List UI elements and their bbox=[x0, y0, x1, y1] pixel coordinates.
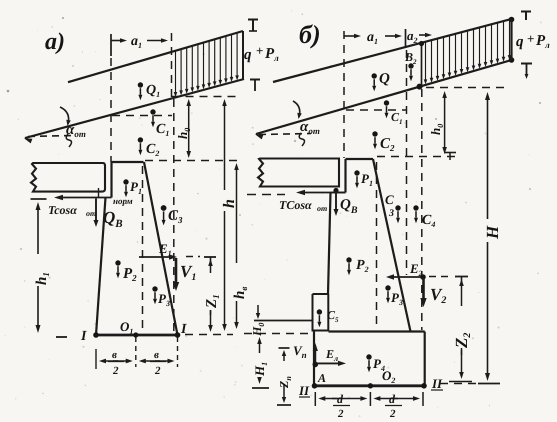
dashed continuation of E1 line (fig a) bbox=[186, 256, 200, 258]
svg-text:от: от bbox=[317, 204, 327, 213]
dimension h1 top tick (fig a) bbox=[31, 198, 47, 200]
svg-text:H: H bbox=[483, 225, 502, 240]
svg-text:2: 2 bbox=[337, 408, 344, 420]
dashed line h0 top level (fig a) bbox=[172, 96, 241, 98]
force point C1 (fig b) bbox=[384, 100, 389, 105]
dimension H line (fig b) bbox=[487, 97, 489, 120]
load band right edge (fig a) bbox=[242, 31, 244, 80]
ground surface lower line (fig a) bbox=[25, 79, 244, 138]
svg-text:d: d bbox=[389, 392, 396, 406]
wall key box bottom (fig b) bbox=[313, 330, 329, 332]
dashed footing top extension (fig b) bbox=[244, 333, 311, 335]
dashed ground-at-wall level (fig b) bbox=[346, 109, 406, 111]
dimension Z1 line (fig a) bbox=[210, 263, 212, 270]
dimension a2 tick (fig b) bbox=[405, 29, 407, 48]
wall stem left face (fig b) bbox=[344, 159, 346, 193]
svg-text:2: 2 bbox=[112, 365, 119, 377]
H0 top arrow (fig b) bbox=[257, 305, 259, 314]
footing left edge (fig b) bbox=[313, 332, 315, 386]
svg-text:в: в bbox=[154, 349, 159, 361]
wall stem left face (fig a) bbox=[110, 162, 112, 198]
dimension h_v line (fig a) bbox=[236, 167, 238, 185]
dashed extension x=376.5 (fig b) bbox=[376, 162, 378, 330]
dashed ground-at-wall level (fig a) bbox=[112, 115, 172, 117]
dimension Zp label (fig b) bbox=[277, 361, 292, 384]
wall base line I-I (fig a) bbox=[95, 334, 180, 337]
load band right edge (fig b) bbox=[510, 19, 512, 61]
dimension Z2 line (fig b) bbox=[461, 283, 463, 292]
dimension Zp bottom serif (fig b) bbox=[277, 404, 291, 406]
force arrow E_l (fig b) bbox=[315, 362, 340, 364]
anchor plate (fig a) bbox=[31, 163, 105, 192]
extension ticks d-dim (fig b) bbox=[314, 392, 316, 406]
dimension h label (fig a) bbox=[217, 190, 235, 211]
plate connection tick (fig a) bbox=[98, 188, 100, 197]
force point P4 (fig b) bbox=[366, 354, 371, 359]
dimension h1 label (fig a) bbox=[30, 254, 48, 286]
svg-text:TCosα: TCosα bbox=[279, 198, 312, 212]
dashed base extension right (fig b) bbox=[440, 383, 476, 385]
force point Q (fig b) bbox=[372, 73, 377, 78]
dashed extension x=344 (fig b) bbox=[343, 31, 345, 158]
wall left face lower (fig a) bbox=[96, 198, 106, 336]
load top end serif I (fig a) bbox=[248, 19, 258, 21]
wall inner left face (fig b) bbox=[328, 193, 331, 295]
wall stem top edge (fig b) bbox=[346, 158, 374, 160]
angle tick below dashed (fig a) bbox=[66, 134, 71, 147]
force arrow Q_B (fig b) bbox=[335, 193, 337, 210]
angle arc arrow alpha_ot (fig a) bbox=[60, 107, 69, 124]
dashed extension x=406.5 (fig b) bbox=[406, 50, 408, 275]
dimension d/2 left (fig b) bbox=[323, 398, 338, 400]
dimension H1 line (fig b) bbox=[259, 341, 261, 349]
H0 reference line (fig b) bbox=[254, 320, 313, 322]
extension dashed right (fig a) bbox=[177, 337, 179, 367]
dimension H label (fig b) bbox=[479, 219, 498, 242]
anchor tie rod with T cos arrow (fig b) bbox=[302, 192, 346, 194]
dimension Z2 top serif (fig b) bbox=[455, 276, 468, 278]
dimension a1 left arrow (fig a) bbox=[111, 40, 123, 42]
dimension a1 right arrow (fig a) bbox=[147, 40, 164, 42]
force point C3 (fig b) bbox=[395, 205, 400, 210]
load bottom end serif T (fig b) bbox=[521, 63, 532, 65]
svg-text:II: II bbox=[298, 383, 310, 398]
svg-text:а): а) bbox=[45, 29, 65, 55]
svg-text:Tcosα: Tcosα bbox=[48, 203, 77, 217]
dashed wall-top level (fig a) bbox=[145, 160, 240, 162]
footing base line II-II (fig b) bbox=[314, 384, 425, 387]
svg-text:3: 3 bbox=[388, 208, 394, 219]
force point C5 (fig b) bbox=[317, 309, 322, 314]
svg-text:Q: Q bbox=[379, 71, 390, 87]
ground surface top line (fig b) bbox=[273, 19, 512, 82]
extension dashed O1 (fig a) bbox=[135, 337, 137, 367]
svg-text:А: А bbox=[317, 371, 326, 385]
dashed centroid line x=142.5 (fig a) bbox=[142, 166, 144, 333]
dimension Z2 bottom serif (fig b) bbox=[449, 381, 472, 383]
paper speckle noise bbox=[181, 65, 183, 67]
dashed tie rod extension (fig b) bbox=[247, 194, 285, 196]
svg-text:+: + bbox=[527, 31, 534, 46]
wall key box right (fig b) bbox=[327, 294, 329, 332]
dashed extension line x=111 (fig a) bbox=[110, 58, 112, 162]
svg-text:q: q bbox=[516, 34, 524, 50]
dashed base extension (fig a) bbox=[185, 334, 233, 336]
force point P1 (fig b) bbox=[354, 170, 359, 175]
force point B2 (fig b) bbox=[408, 63, 413, 68]
distributed load hatch arrows q+P (fig a) bbox=[175, 51, 177, 94]
force point P3 (fig a) bbox=[152, 286, 157, 291]
anchor plate (fig b) bbox=[258, 159, 339, 187]
dimension a2 arrow (fig b) bbox=[419, 34, 428, 36]
dimension d/2 right (fig b) bbox=[378, 398, 398, 400]
force point P2 (fig b) bbox=[346, 257, 351, 262]
dimension b/2 right (fig a) bbox=[143, 360, 160, 362]
dimension Zp line (fig b) bbox=[283, 354, 285, 358]
dimension a1 right arrow (fig b) bbox=[385, 35, 398, 37]
label I left (fig a) bbox=[56, 336, 67, 338]
dashed continuation E2 (fig b) bbox=[429, 276, 452, 278]
svg-text:C: C bbox=[385, 192, 394, 207]
distributed load hatch arrows q+P (fig b) bbox=[425, 42, 427, 81]
load band left edge (fig b) bbox=[421, 43, 423, 86]
force point P1 (fig a) bbox=[123, 179, 128, 184]
dimension H bottom serif (fig b) bbox=[478, 383, 500, 385]
force point P3 (fig b) bbox=[385, 285, 390, 290]
anchor tie rod with T cos arrow (fig a) bbox=[60, 197, 112, 199]
force arrow Q_B norm (fig a) bbox=[95, 199, 97, 222]
load bottom end serif T (fig a) bbox=[250, 79, 260, 81]
svg-text:d: d bbox=[337, 392, 344, 406]
force point C2 (fig b) bbox=[372, 131, 377, 136]
dimension Z1 label (fig a) bbox=[203, 273, 219, 310]
svg-text:q: q bbox=[244, 47, 252, 63]
h0 bottom serif (fig b) bbox=[444, 152, 456, 154]
wall stem top edge (fig a) bbox=[112, 161, 144, 163]
dimension Z2 label (fig b) bbox=[453, 306, 469, 348]
force arrow E1 (fig a) bbox=[139, 256, 171, 258]
load top end serif (fig b) bbox=[521, 11, 531, 13]
angle reference dashed horizontal (fig a) bbox=[28, 136, 73, 137]
wall sloped right face (fig a) bbox=[144, 162, 178, 335]
dimension h0 line (fig a) bbox=[188, 103, 190, 128]
angle arc arrow alpha_ot (fig b) bbox=[293, 101, 300, 117]
svg-text:+: + bbox=[256, 43, 263, 58]
dashed resultant line x=174 (fig a) bbox=[173, 99, 175, 334]
force arrow E2 (fig b) bbox=[392, 276, 423, 278]
force point C2 (fig a) bbox=[138, 137, 143, 142]
force arrow V_p (fig b) bbox=[314, 349, 316, 363]
dashed extension line x=172 load edge (fig a) bbox=[171, 33, 173, 99]
svg-text:2: 2 bbox=[154, 365, 161, 377]
angle reference dashed horizontal (fig b) bbox=[259, 134, 311, 135]
force point C3 (fig a) bbox=[161, 205, 167, 211]
svg-text:I: I bbox=[80, 329, 87, 344]
ground surface lower line (fig b) bbox=[256, 60, 512, 134]
wall inner jog (fig b) bbox=[331, 192, 346, 194]
svg-text:от: от bbox=[86, 209, 96, 218]
dimension H1 label (fig b) bbox=[252, 353, 268, 377]
dimension h_v label (fig a) bbox=[229, 263, 246, 301]
wall key box top (fig b) bbox=[313, 293, 329, 295]
force point P2 (fig a) bbox=[115, 260, 120, 265]
wall sloped right face (fig b) bbox=[373, 159, 411, 332]
extension left tick (fig a) bbox=[95, 349, 97, 369]
dimension H1 bottom serif (fig b) bbox=[252, 387, 269, 389]
footing right edge (fig b) bbox=[424, 332, 426, 386]
dashed extension x=422 (fig b) bbox=[421, 89, 423, 330]
dashed wall-top level (fig b) bbox=[377, 156, 458, 158]
svg-text:2: 2 bbox=[389, 408, 396, 420]
force arrow V1 (fig a) bbox=[175, 258, 178, 283]
dimension h0 line (fig b) bbox=[444, 95, 446, 120]
dimension h1 line (fig a) bbox=[37, 207, 39, 250]
dimension a1 tick left (fig a) bbox=[110, 34, 112, 56]
ground surface top line (fig a) bbox=[68, 31, 243, 82]
dashed line h0 top level (fig b) bbox=[426, 87, 505, 89]
force point C4 (fig b) bbox=[413, 205, 418, 210]
dimension a1 left arrow (fig b) bbox=[344, 35, 357, 37]
angle tick below dashed (fig b) bbox=[299, 133, 304, 146]
svg-text:б): б) bbox=[299, 20, 321, 49]
svg-text:норм: норм bbox=[113, 196, 133, 206]
force point Q1 (fig a) bbox=[138, 82, 143, 87]
svg-text:в: в bbox=[112, 349, 117, 361]
dimension Z1 top serif (fig a) bbox=[204, 256, 216, 258]
dimension Zp top serif (fig b) bbox=[279, 347, 290, 349]
force arrow V2 (fig b) bbox=[422, 278, 425, 299]
force point C1 (fig a) bbox=[150, 109, 155, 114]
dimension h line (fig a) bbox=[224, 103, 226, 120]
footing top edge (fig b) bbox=[329, 330, 425, 332]
dimension b/2 left (fig a) bbox=[103, 360, 118, 362]
svg-text:h: h bbox=[221, 199, 238, 208]
wall key box left (fig b) bbox=[312, 294, 314, 332]
